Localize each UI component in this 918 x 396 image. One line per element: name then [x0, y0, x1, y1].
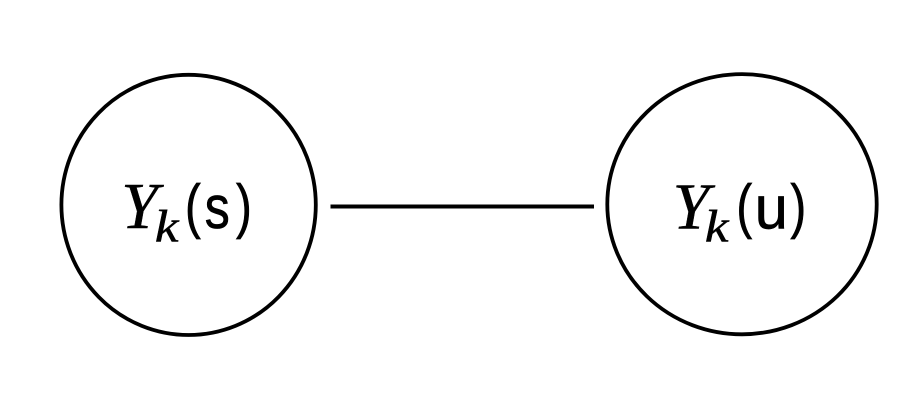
node Yk(s) circle [61, 75, 315, 335]
svg-text:u: u [755, 173, 788, 241]
svg-text:s: s [205, 173, 230, 241]
svg-text:k: k [155, 201, 180, 251]
node Yk(u) circle [607, 74, 876, 334]
edge wire between nodes [331, 205, 595, 209]
svg-text:k: k [705, 201, 730, 251]
label Yk(u) [673, 171, 807, 252]
label Yk(s) [121, 170, 252, 252]
svg-text:(: ( [736, 171, 752, 239]
svg-text:): ) [790, 171, 806, 239]
svg-text:): ) [236, 171, 252, 239]
svg-text:(: ( [185, 171, 201, 239]
